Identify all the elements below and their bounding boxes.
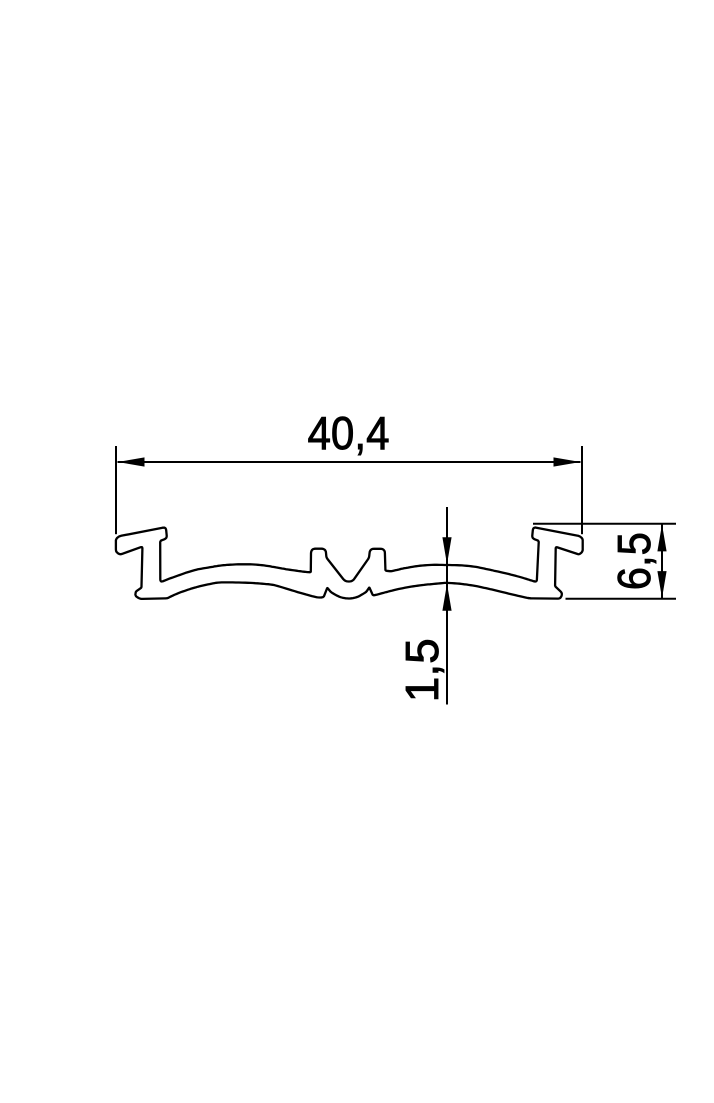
svg-text:1,5: 1,5 <box>396 638 448 702</box>
svg-text:40,4: 40,4 <box>308 407 390 459</box>
svg-text:6,5: 6,5 <box>608 532 660 590</box>
